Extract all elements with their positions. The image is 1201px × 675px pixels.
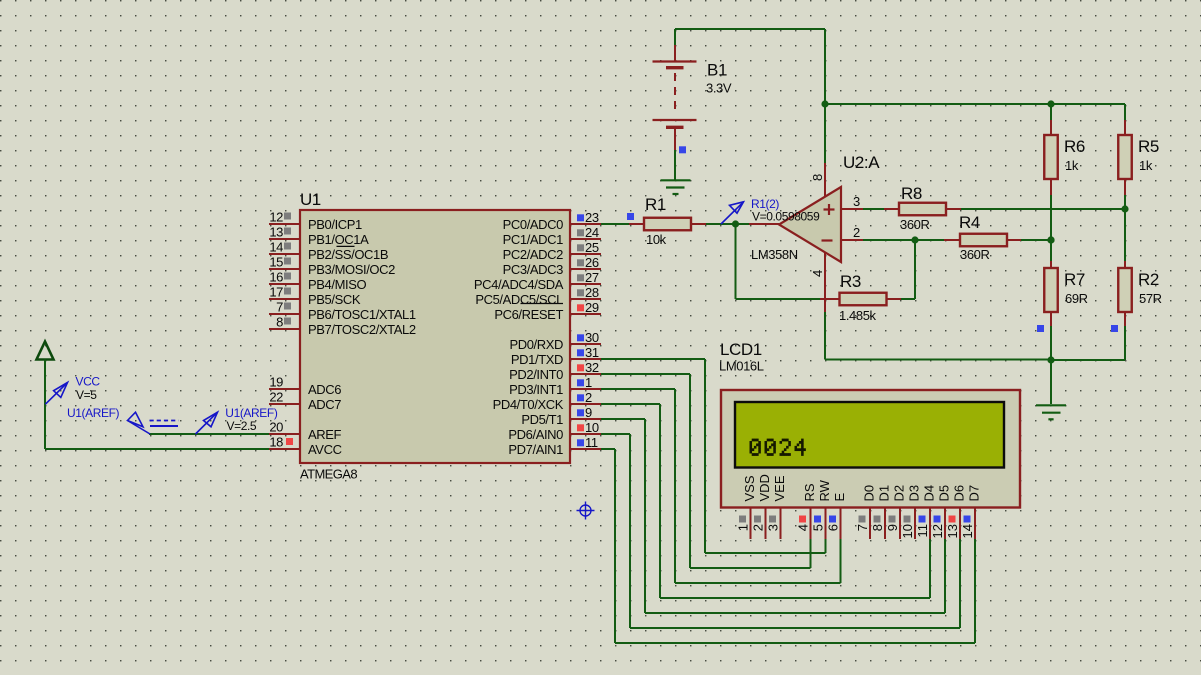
svg-text:13: 13 (269, 225, 283, 240)
svg-text:PC2/ADC2: PC2/ADC2 (503, 247, 564, 262)
svg-text:PC4/ADC4/SDA: PC4/ADC4/SDA (474, 277, 564, 292)
svg-text:V=2.5: V=2.5 (227, 419, 257, 433)
svg-text:VDD: VDD (757, 474, 772, 501)
svg-text:28: 28 (585, 285, 599, 300)
svg-text:PB7/TOSC2/XTAL2: PB7/TOSC2/XTAL2 (308, 322, 416, 337)
svg-text:27: 27 (585, 270, 599, 285)
svg-text:26: 26 (585, 255, 599, 270)
svg-text:10: 10 (585, 420, 599, 435)
svg-text:10k: 10k (646, 232, 667, 247)
svg-text:LCD1: LCD1 (720, 340, 762, 359)
svg-text:69R: 69R (1065, 291, 1088, 306)
svg-text:PC3/ADC3: PC3/ADC3 (503, 262, 564, 277)
svg-text:D6: D6 (952, 485, 967, 502)
svg-text:PC1/ADC1: PC1/ADC1 (503, 232, 564, 247)
svg-text:D2: D2 (892, 485, 907, 502)
svg-text:D0: D0 (862, 485, 877, 502)
svg-text:D1: D1 (877, 485, 892, 502)
svg-text:D4: D4 (922, 485, 937, 502)
svg-text:PB6/TOSC1/XTAL1: PB6/TOSC1/XTAL1 (308, 307, 416, 322)
svg-text:LM016L: LM016L (719, 359, 764, 374)
svg-text:15: 15 (269, 255, 283, 270)
svg-text:ADC7: ADC7 (308, 397, 341, 412)
svg-text:22: 22 (269, 390, 283, 405)
svg-text:PD5/T1: PD5/T1 (521, 412, 563, 427)
svg-text:24: 24 (585, 225, 599, 240)
svg-text:R6: R6 (1064, 137, 1085, 156)
svg-text:3: 3 (766, 524, 781, 531)
svg-text:ATMEGA8: ATMEGA8 (300, 467, 357, 482)
svg-text:8: 8 (810, 174, 825, 181)
svg-text:PD0/RXD: PD0/RXD (509, 337, 563, 352)
svg-text:14: 14 (960, 524, 975, 538)
svg-text:1k: 1k (1065, 158, 1079, 173)
svg-text:360R: 360R (960, 247, 989, 262)
svg-text:D7: D7 (967, 485, 982, 502)
svg-text:R5: R5 (1138, 137, 1159, 156)
svg-text:R4: R4 (959, 213, 980, 232)
svg-text:PC6/RESET: PC6/RESET (494, 307, 563, 322)
svg-text:9: 9 (885, 524, 900, 531)
svg-text:PD3/INT1: PD3/INT1 (509, 382, 563, 397)
svg-text:2: 2 (751, 524, 766, 531)
svg-text:PB5/SCK: PB5/SCK (308, 292, 361, 307)
svg-text:12: 12 (930, 524, 945, 538)
svg-text:3.3V: 3.3V (706, 81, 732, 96)
svg-text:4: 4 (796, 524, 811, 531)
svg-text:29: 29 (585, 300, 599, 315)
svg-text:2: 2 (853, 225, 860, 240)
svg-text:11: 11 (585, 435, 598, 450)
svg-text:16: 16 (269, 270, 283, 285)
svg-text:1.485k: 1.485k (839, 308, 877, 323)
svg-text:R3: R3 (840, 272, 861, 291)
svg-text:7: 7 (855, 524, 870, 531)
svg-text:U1: U1 (300, 190, 321, 209)
svg-text:10: 10 (900, 524, 915, 538)
svg-text:V=5: V=5 (76, 388, 97, 402)
svg-text:2: 2 (585, 390, 592, 405)
svg-text:B1: B1 (707, 61, 727, 80)
svg-text:R2: R2 (1138, 270, 1159, 289)
svg-text:PC5/ADC5/SCL: PC5/ADC5/SCL (475, 292, 563, 307)
svg-text:11: 11 (915, 524, 930, 538)
svg-text:8: 8 (276, 315, 283, 330)
svg-text:20: 20 (269, 420, 283, 435)
svg-text:PB1/OC1A: PB1/OC1A (308, 232, 369, 247)
svg-text:U2:A: U2:A (843, 153, 880, 172)
svg-text:D3: D3 (907, 485, 922, 502)
svg-text:3: 3 (853, 194, 860, 209)
svg-text:LM358N: LM358N (751, 247, 798, 262)
svg-text:PB0/ICP1: PB0/ICP1 (308, 217, 362, 232)
svg-text:PD7/AIN1: PD7/AIN1 (508, 442, 563, 457)
svg-text:R8: R8 (901, 184, 922, 203)
svg-text:D5: D5 (937, 485, 952, 502)
svg-text:VCC: VCC (76, 375, 101, 389)
svg-text:31: 31 (585, 345, 599, 360)
svg-text:12: 12 (269, 210, 283, 225)
svg-text:V=0.0598059: V=0.0598059 (752, 210, 820, 224)
svg-text:PB3/MOSI/OC2: PB3/MOSI/OC2 (308, 262, 395, 277)
svg-text:E: E (832, 493, 847, 502)
svg-text:AVCC: AVCC (308, 442, 342, 457)
svg-text:PB2/SS/OC1B: PB2/SS/OC1B (308, 247, 388, 262)
svg-text:VEE: VEE (772, 475, 787, 501)
svg-text:8: 8 (870, 524, 885, 531)
svg-text:PD2/INT0: PD2/INT0 (509, 367, 563, 382)
svg-text:23: 23 (585, 210, 599, 225)
svg-text:57R: 57R (1139, 291, 1162, 306)
svg-text:PB4/MISO: PB4/MISO (308, 277, 366, 292)
svg-text:18: 18 (269, 435, 283, 450)
svg-text:VSS: VSS (742, 475, 757, 501)
svg-text:6: 6 (826, 524, 841, 531)
svg-text:13: 13 (945, 524, 960, 538)
svg-text:9: 9 (585, 405, 592, 420)
svg-text:30: 30 (585, 330, 599, 345)
svg-text:360R: 360R (900, 217, 929, 232)
svg-text:RS: RS (802, 483, 817, 501)
svg-text:25: 25 (585, 240, 599, 255)
svg-text:4: 4 (810, 270, 825, 277)
svg-text:1: 1 (736, 524, 751, 531)
svg-text:AREF: AREF (308, 427, 342, 442)
svg-text:R7: R7 (1064, 270, 1085, 289)
svg-text:U1(AREF): U1(AREF) (225, 406, 278, 420)
svg-text:1k: 1k (1139, 158, 1153, 173)
svg-text:RW: RW (817, 479, 832, 501)
svg-text:PD1/TXD: PD1/TXD (511, 352, 563, 367)
svg-text:17: 17 (269, 285, 283, 300)
svg-text:32: 32 (585, 360, 599, 375)
svg-text:1: 1 (585, 375, 592, 390)
svg-text:14: 14 (269, 240, 283, 255)
svg-text:R1: R1 (645, 195, 666, 214)
svg-text:PC0/ADC0: PC0/ADC0 (503, 217, 564, 232)
svg-text:PD6/AIN0: PD6/AIN0 (508, 427, 563, 442)
svg-text:19: 19 (269, 375, 283, 390)
svg-text:U1(AREF): U1(AREF) (67, 406, 120, 420)
svg-text:7: 7 (276, 300, 283, 315)
svg-text:PD4/T0/XCK: PD4/T0/XCK (493, 397, 564, 412)
svg-text:5: 5 (811, 524, 826, 531)
svg-text:ADC6: ADC6 (308, 382, 341, 397)
